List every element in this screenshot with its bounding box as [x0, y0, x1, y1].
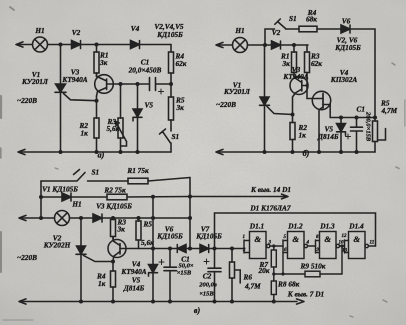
wire D1.1 out to D1.2 in: [270, 245, 283, 247]
svg-text:D1.4: D1.4: [348, 222, 364, 231]
wire left riser v: [40, 181, 42, 218]
svg-text:Н1: Н1: [34, 26, 44, 35]
svg-text:Н1: Н1: [71, 200, 81, 209]
arrow to pin14 D1: [281, 194, 288, 199]
svg-text:200,0в: 200,0в: [198, 282, 217, 289]
svg-text:3к: 3к: [99, 58, 108, 67]
svg-text:в): в): [194, 306, 201, 315]
wire bottom rail b: [219, 151, 375, 153]
svg-text:К выв. 14 D1: К выв. 14 D1: [250, 185, 291, 194]
transistor V4 (v) KT940A: [108, 240, 126, 258]
wire bottom rail a: [21, 151, 171, 153]
node gate-emitter v: [111, 260, 115, 264]
svg-text:КУ201Л: КУ201Л: [223, 87, 251, 96]
svg-text:62к: 62к: [311, 59, 322, 68]
diode V6 (b): [341, 25, 350, 33]
capacitor C1 (a) 20.0x450V: [150, 78, 156, 91]
node R3 top a: [119, 82, 123, 86]
node R1 top b: [292, 43, 296, 47]
node bottom thyristor v: [79, 300, 83, 304]
wire R9 riser: [341, 246, 343, 274]
wire right riser v: [189, 178, 191, 249]
diode V4 (a): [131, 41, 140, 49]
svg-text:1к: 1к: [299, 131, 307, 140]
lamp H1 (v): [55, 211, 70, 226]
svg-text:КУ201Л: КУ201Л: [21, 77, 49, 86]
node bottom thyristor b: [263, 150, 267, 154]
arrow left end top rail b: [216, 42, 223, 47]
wire V1-R2 branch v: [41, 196, 281, 199]
svg-text:V2: V2: [272, 28, 281, 37]
node V1 branch v: [39, 195, 43, 199]
svg-text:68к: 68к: [306, 15, 317, 24]
svg-text:1к: 1к: [98, 279, 106, 288]
resistor R8 68k: [273, 274, 275, 302]
wire main rail v: [22, 217, 190, 219]
svg-text:V3 КД105Б: V3 КД105Б: [96, 202, 132, 211]
zener V5 (v) D814B: [149, 265, 158, 273]
node R9 riser top: [340, 244, 343, 247]
wire R6 tap v: [235, 270, 240, 283]
wire thyristor gate b: [267, 107, 293, 115]
svg-text:1: 1: [243, 235, 246, 240]
resistor R2 (b) 1k: [290, 123, 295, 140]
node main left v: [39, 216, 43, 220]
wire D1.3 out to D1.4 in: [340, 245, 345, 247]
diode V6 (v) points left: [177, 245, 186, 253]
arrow left end top rail a: [16, 42, 23, 47]
wire up branch to S1 b: [265, 29, 275, 45]
node V5 top a: [136, 82, 140, 86]
resistor R3 (a) trimmer 5.6k: [120, 84, 122, 152]
gate D1.1: [244, 240, 250, 253]
svg-text:Д814Б: Д814Б: [123, 284, 145, 293]
svg-text:50,0×: 50,0×: [178, 263, 193, 270]
wire top rail b: [219, 44, 308, 46]
diode V2 (b): [272, 41, 281, 49]
node V5 rail v: [151, 247, 155, 251]
gate D1.3: [316, 240, 320, 253]
svg-text:D1.3: D1.3: [319, 222, 335, 231]
svg-text:КТ940А: КТ940А: [61, 75, 87, 84]
thyristor V1 (b): [264, 45, 266, 97]
wire V5 column v: [152, 197, 154, 302]
node C2 top v: [213, 247, 217, 251]
svg-text:С2: С2: [203, 272, 212, 281]
svg-text:КД105Б: КД105Б: [156, 232, 183, 241]
node branch junction b: [263, 43, 267, 47]
svg-text:КД105Б: КД105Б: [195, 232, 222, 241]
lamp H1 (b): [233, 38, 248, 53]
resistor R7 20k: [273, 246, 275, 274]
zener V5 (b) D814B: [340, 118, 342, 124]
svg-text:КТ940А: КТ940А: [282, 72, 308, 81]
svg-text:V4: V4: [131, 24, 140, 33]
node R5 top v: [137, 216, 141, 220]
gate D1.2: [283, 240, 288, 253]
switch S1 (v): [74, 170, 86, 181]
diode V3 (v): [93, 214, 102, 222]
svg-text:С1: С1: [357, 105, 366, 114]
wire V3 emitter column a: [96, 96, 98, 152]
resistor R9 510k: [305, 271, 320, 277]
node C1-R4-R5 a: [169, 82, 173, 86]
wire D1.2 out to D1.3 in: [308, 245, 316, 247]
thyristor V2 (v) KU202N: [80, 218, 82, 246]
svg-text:20,0×450В: 20,0×450В: [128, 66, 162, 75]
node right riser main v: [188, 216, 192, 220]
svg-text:Н1: Н1: [234, 26, 244, 35]
svg-text:R6: R6: [243, 273, 253, 282]
node bottom R8 v: [272, 300, 276, 304]
node bottom R2 b: [291, 150, 295, 154]
svg-text:S1: S1: [289, 14, 297, 23]
node R5 top b: [373, 116, 377, 120]
wire V3 base rail a: [107, 83, 171, 85]
node bottom R2 a: [95, 150, 99, 154]
zener V5 (a): [137, 84, 139, 109]
transistor V3 (b) KT940A: [290, 77, 308, 95]
capacitor C2 (v) 200.0x15V: [214, 249, 216, 302]
svg-text:V2: V2: [72, 28, 81, 37]
node V5 main v: [151, 216, 155, 220]
wire top rail a: [19, 44, 171, 46]
svg-text:S1: S1: [92, 168, 100, 177]
svg-text:~220В: ~220В: [17, 253, 37, 262]
resistor R1 (v) 75k: [128, 178, 148, 184]
switch S1 (a): [160, 128, 172, 152]
node bottom C1 v: [168, 300, 172, 304]
svg-text:×15В: ×15В: [177, 270, 192, 277]
svg-text:КД105Б: КД105Б: [156, 30, 183, 39]
svg-text:&: &: [324, 234, 331, 244]
resistor R2 (a) 1k: [94, 118, 99, 138]
svg-text:V1 КД105Б: V1 КД105Б: [42, 185, 78, 194]
transistor V3 (a) KT940A: [95, 75, 114, 94]
resistor R4 (a) 62k: [170, 45, 172, 85]
svg-text:20к: 20к: [258, 266, 270, 275]
wire D1.2 pin6 down: [282, 253, 284, 274]
node gate-emitter b: [291, 113, 295, 117]
resistor R4 (b) 68k horizontal: [299, 26, 317, 32]
node R2 drop v: [151, 195, 155, 199]
node bottom V5 v: [151, 300, 155, 304]
wire V4 emitter column R4 v: [112, 262, 114, 302]
svg-text:12: 12: [342, 234, 348, 239]
svg-text:&: &: [292, 234, 299, 244]
svg-text:4,7М: 4,7М: [381, 106, 398, 115]
wire D1.4 out: [368, 245, 375, 247]
arrow left end bottom rail a: [18, 149, 25, 154]
svg-text:V5: V5: [145, 101, 154, 110]
capacitor C1 (v) 50.0x15V: [169, 249, 171, 302]
resistor R5 (a) 3k: [170, 84, 172, 128]
wire V4 base to R5 corner v: [126, 248, 153, 250]
svg-text:10: 10: [339, 241, 345, 246]
svg-text:3: 3: [268, 241, 272, 246]
svg-text:б): б): [303, 149, 310, 158]
svg-text:V6: V6: [342, 17, 351, 26]
svg-text:D1.1: D1.1: [249, 222, 264, 231]
svg-text:R8 68к: R8 68к: [277, 280, 300, 289]
svg-text:~220В: ~220В: [216, 100, 236, 109]
svg-text:&: &: [353, 234, 360, 244]
node timing-pin6: [281, 272, 284, 275]
node bottom thyristor a: [59, 150, 63, 154]
node bottom R4 v: [111, 300, 115, 304]
node bottom V5 a: [136, 150, 140, 154]
svg-text:S1: S1: [172, 132, 180, 141]
switch S1 (b): [275, 19, 299, 29]
FET V4 (b) KP302A: [312, 91, 330, 109]
node R6 top v: [230, 247, 234, 251]
resistor R3 (v) 3k: [112, 218, 114, 240]
resistor R5 (v) 5.6k: [138, 218, 140, 221]
wire S1-R1 branch v: [41, 178, 190, 182]
gate D1.4: [345, 240, 349, 253]
wire drain rail b: [330, 117, 375, 119]
node R1 riser mid v: [188, 195, 192, 199]
wire thyristor gate a: [64, 94, 97, 101]
svg-text:а): а): [98, 151, 105, 160]
node V3 base to R3 column b: [306, 84, 309, 87]
resistor R6 (v) 4.7M: [231, 249, 233, 302]
svg-text:4,7М: 4,7М: [244, 282, 261, 291]
svg-text:3к: 3к: [282, 59, 291, 68]
arrow right end to pin7 D1: [297, 299, 305, 304]
svg-text:D1 К176ЛА7: D1 К176ЛА7: [249, 204, 291, 213]
node C1 top b: [355, 116, 359, 120]
svg-text:R1 75к: R1 75к: [126, 166, 149, 175]
svg-text:5,6к: 5,6к: [141, 238, 154, 247]
resistor R5 (b) 4.7M: [373, 121, 378, 142]
capacitor C1 (b) 200.0x15V: [356, 118, 358, 153]
resistor R2 (v) 75k: [107, 194, 127, 200]
node V5 top b: [339, 116, 343, 120]
resistor R3 (b) 62k: [306, 45, 308, 52]
svg-text:КД105Б: КД105Б: [334, 43, 361, 52]
wire thyristor gate v: [84, 256, 114, 262]
node bottom C1 b: [355, 150, 359, 154]
svg-text:D1.2: D1.2: [287, 222, 303, 231]
svg-text:R5: R5: [143, 220, 153, 229]
arrow left end main rail v: [19, 215, 26, 220]
node bottom V5 b: [339, 150, 343, 154]
diode V2 (a): [72, 41, 81, 49]
node C1 top v: [168, 247, 172, 251]
resistor R1 (b) 3k: [293, 45, 295, 77]
node riser-rail v: [188, 247, 192, 251]
arrow left end bottom rail v: [19, 299, 26, 304]
diode V7 (v): [200, 245, 209, 253]
wire bottom rail v: [22, 301, 297, 303]
wire R5 tap b: [378, 129, 386, 141]
svg-text:&: &: [254, 234, 261, 244]
wire V3 emitter column b: [293, 93, 296, 152]
svg-text:×15В: ×15В: [199, 291, 214, 298]
wire timing rail: [274, 273, 342, 275]
svg-text:11: 11: [370, 241, 375, 246]
svg-text:КП302А: КП302А: [330, 75, 358, 84]
svg-text:3к: 3к: [176, 103, 185, 112]
node R3 top v: [111, 216, 115, 220]
svg-text:4: 4: [306, 241, 310, 246]
svg-text:R9 510к: R9 510к: [300, 262, 326, 271]
svg-text:~220В: ~220В: [17, 96, 37, 105]
node R1 top a: [95, 43, 99, 47]
svg-text:5,6к: 5,6к: [107, 124, 120, 133]
node gate-emitter a: [95, 99, 99, 103]
resistor R4 (v) 1k: [111, 271, 116, 287]
svg-text:13: 13: [342, 249, 348, 254]
node R7 top: [272, 244, 275, 247]
node timing-R7: [272, 272, 275, 275]
node thyristor top v: [79, 216, 83, 220]
node lamp/thyristor junction a: [59, 43, 63, 47]
svg-text:200,0×15В: 200,0×15В: [365, 111, 372, 142]
svg-text:3к: 3к: [117, 225, 126, 234]
svg-text:Д814Б: Д814Б: [317, 132, 339, 141]
svg-text:1к: 1к: [81, 129, 89, 138]
thyristor V1 (a): [56, 84, 66, 92]
node bottom R6 v: [230, 300, 234, 304]
wire thyristor column a: [60, 45, 62, 153]
arrow left end bottom rail b: [216, 149, 223, 154]
svg-text:2: 2: [242, 248, 246, 253]
node bottom C2 v: [213, 300, 217, 304]
svg-text:R2 75к: R2 75к: [103, 186, 126, 195]
diode V1 (v): [62, 193, 71, 201]
node bottom FET source b: [317, 150, 321, 154]
node bottom R3 a: [119, 150, 123, 154]
lamp H1 (a): [33, 37, 48, 52]
svg-text:КУ202Н: КУ202Н: [43, 241, 71, 250]
wire feedback riser and top v: [215, 213, 376, 249]
wire supply rail v: [153, 248, 244, 250]
svg-text:62к: 62к: [176, 59, 187, 68]
svg-text:К выв. 7 D1: К выв. 7 D1: [287, 290, 324, 299]
wire V6 to right column b: [350, 29, 375, 121]
resistor R1 (a) 3k: [96, 45, 98, 77]
